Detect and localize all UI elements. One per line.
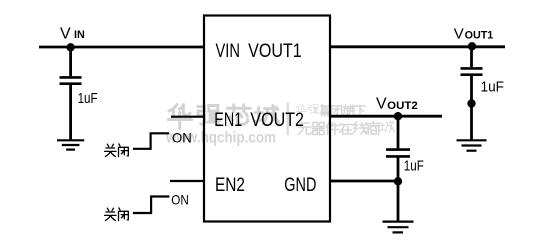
svg-text:V: V <box>60 26 71 43</box>
watermark small 华强集团旗下 <box>296 104 365 116</box>
watermark big 城 <box>255 106 279 124</box>
label 关闭 (EN1) <box>105 144 129 157</box>
watermark big 强 <box>198 106 220 126</box>
svg-text:EN1: EN1 <box>214 110 242 131</box>
svg-text:OUT1: OUT1 <box>465 29 494 41</box>
svg-text:V: V <box>376 96 387 113</box>
label 关闭 (EN2) <box>105 208 129 221</box>
svg-text:ON: ON <box>172 130 192 146</box>
svg-text:ON: ON <box>171 191 189 207</box>
wire GND pin <box>330 180 398 183</box>
op-amp/regulator IC U1 box <box>204 16 330 222</box>
watermark small 元器件在线商城 <box>298 121 394 135</box>
svg-text:1uF: 1uF <box>481 80 505 96</box>
svg-text:1uF: 1uF <box>78 91 98 107</box>
capacitor C3 <box>386 148 410 151</box>
watermark big 华 <box>168 105 191 129</box>
node VIN junction <box>66 43 74 51</box>
wire VOUT2 output <box>330 115 442 118</box>
svg-text:EN2: EN2 <box>215 175 245 196</box>
waveform EN1 (off->on step) <box>133 133 169 149</box>
watermark big 芯 <box>227 105 250 125</box>
waveform EN2 (off->on step) <box>133 197 170 214</box>
node VOUT2 junction <box>394 112 402 120</box>
svg-text:GND: GND <box>284 175 316 196</box>
wire VOUT2 cap top lead <box>397 116 400 148</box>
watermark divider <box>287 103 289 136</box>
svg-text:VIN: VIN <box>216 41 241 62</box>
node on VOUT1 cap lead <box>467 99 475 107</box>
wire VOUT1 cap bottom lead <box>470 76 473 141</box>
wire VIN cap bottom lead <box>69 85 72 141</box>
wire EN2 <box>170 180 204 182</box>
ground right <box>457 140 487 150</box>
svg-text:V: V <box>454 25 464 42</box>
wire VOUT1 output <box>330 45 505 48</box>
svg-text:VOUT1: VOUT1 <box>248 41 302 62</box>
svg-text:OUT2: OUT2 <box>387 100 418 112</box>
node VOUT1 junction <box>468 42 476 50</box>
wire EN1 <box>171 116 204 118</box>
capacitor C2 <box>461 67 483 70</box>
capacitor C1 <box>60 76 82 79</box>
svg-text:VOUT2: VOUT2 <box>250 110 304 131</box>
svg-text:1uF: 1uF <box>404 158 424 174</box>
wire VIN cap top lead <box>69 47 72 76</box>
wire VOUT2 cap bottom lead <box>397 158 400 182</box>
svg-text:IN: IN <box>74 29 85 41</box>
wire VOUT1 cap top lead <box>470 47 473 67</box>
node GND junction <box>394 177 402 185</box>
wire GND down lead <box>397 181 400 222</box>
wire VIN input <box>39 46 204 49</box>
ground left <box>57 140 84 149</box>
ground center <box>383 222 414 233</box>
